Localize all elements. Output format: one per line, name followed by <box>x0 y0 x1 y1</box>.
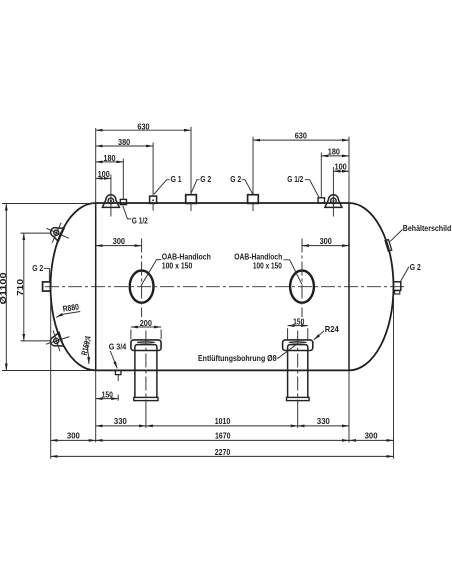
dimension 300 manhole left <box>96 245 142 247</box>
extension line right tangent below <box>348 370 350 442</box>
left leg flange lens <box>137 342 155 343</box>
dimension 630 top-right <box>253 139 349 141</box>
dimension 330 bottom-left <box>96 425 146 427</box>
svg-text:G 1: G 1 <box>171 174 182 184</box>
left tangent weld seam <box>95 203 97 370</box>
dimension 200 left leg <box>131 330 161 340</box>
extension line left apex <box>50 292 52 459</box>
svg-text:630: 630 <box>137 122 149 132</box>
svg-text:1010: 1010 <box>215 416 231 426</box>
dimension 630 top-left <box>96 129 191 131</box>
dimension 150 vent position <box>96 398 119 400</box>
fitting G 1 (square on top line) <box>150 196 157 203</box>
left dished head <box>51 203 96 370</box>
left leg pipe <box>135 345 157 398</box>
dimension 180 top-right <box>321 155 349 157</box>
dimension 100 top-left <box>96 177 111 179</box>
fitting G 2 left head apex <box>43 282 51 291</box>
svg-text:Ø1100: Ø1100 <box>0 272 8 304</box>
svg-text:150: 150 <box>293 317 305 327</box>
svg-text:100: 100 <box>98 169 110 179</box>
manhole left ellipse <box>130 271 154 303</box>
svg-text:R24: R24 <box>325 324 339 334</box>
dimension 180 top-left <box>96 161 124 163</box>
svg-text:1670: 1670 <box>215 430 231 440</box>
svg-text:380: 380 <box>118 137 130 147</box>
extension lines 710 to head lugs <box>21 233 52 341</box>
left leg foot <box>134 397 158 400</box>
label R169,4 <box>79 335 93 356</box>
extension line lug-left centerline <box>110 175 112 217</box>
left leg centerline <box>145 331 147 412</box>
svg-text:100 x 150: 100 x 150 <box>253 261 282 271</box>
dimension 100 top-right <box>333 170 349 172</box>
dimension 710 <box>23 233 25 341</box>
svg-text:300: 300 <box>113 236 125 246</box>
fitting G 2 right head apex <box>393 282 400 291</box>
tank shell bottom line <box>96 369 349 371</box>
dimension 300 manhole right <box>302 245 349 247</box>
lifting lug top-left on shell <box>102 195 119 208</box>
svg-text:200: 200 <box>140 318 152 328</box>
svg-text:100 x 150: 100 x 150 <box>162 261 193 271</box>
right leg pipe <box>288 345 308 398</box>
svg-text:300: 300 <box>67 430 80 440</box>
svg-text:G 1/2: G 1/2 <box>287 174 303 184</box>
extension line right tangent above <box>348 137 350 203</box>
svg-text:G 2: G 2 <box>32 263 43 273</box>
extension line left tangent above <box>95 128 97 203</box>
left leg flange <box>131 340 161 351</box>
fitting G 1/2 left (square on top line) <box>120 199 126 204</box>
dimension 300 bottom-left <box>51 439 96 441</box>
right dished head <box>349 203 394 370</box>
svg-text:Entlüftungsbohrung Ø8: Entlüftungsbohrung Ø8 <box>198 353 277 363</box>
svg-text:300: 300 <box>320 236 332 246</box>
extension line right apex <box>393 294 395 459</box>
fitting G 1/2 right (square on top line) <box>318 198 324 203</box>
extension line G1/2 left <box>122 159 124 200</box>
right leg flange <box>283 340 313 351</box>
svg-text:100: 100 <box>335 162 347 172</box>
head lug upper-left <box>42 218 73 248</box>
extension line G1/2 right <box>320 153 322 198</box>
tank horizontal centerline <box>45 286 404 288</box>
head lug lower-left <box>43 326 73 354</box>
dimension dia 1100 <box>5 204 7 371</box>
svg-text:150: 150 <box>102 389 114 399</box>
svg-text:R169,4: R169,4 <box>79 335 93 356</box>
manhole left centerline <box>141 239 143 318</box>
right leg flange lens <box>289 342 307 343</box>
lifting lug top-right on shell <box>325 195 342 208</box>
svg-text:630: 630 <box>295 131 307 141</box>
right leg foot <box>287 397 310 400</box>
svg-text:G 3/4: G 3/4 <box>109 341 127 351</box>
svg-text:710: 710 <box>15 279 25 296</box>
svg-text:G 2: G 2 <box>230 174 241 184</box>
dimension 2270 bottom <box>51 455 394 457</box>
dimension 300 bottom-right <box>349 439 394 441</box>
svg-text:G 2: G 2 <box>200 174 211 184</box>
svg-text:300: 300 <box>365 430 378 440</box>
right tangent weld seam <box>348 203 350 370</box>
dimension 1010 bottom <box>146 425 298 427</box>
tank shell top line <box>96 202 349 204</box>
svg-text:G 2: G 2 <box>410 262 421 272</box>
svg-text:2270: 2270 <box>215 447 231 457</box>
nameplate Behaelterschild on right head <box>385 240 392 252</box>
fitting G 2 left (square on top line) <box>186 195 197 204</box>
manhole right ellipse <box>290 271 314 303</box>
extension line G2 mid-right <box>252 137 254 211</box>
dimension 330 bottom-right <box>298 425 349 427</box>
fitting G 2 mid-right (square on top line) <box>248 195 259 204</box>
svg-text:330: 330 <box>317 416 330 426</box>
svg-text:180: 180 <box>328 147 340 157</box>
svg-text:330: 330 <box>114 416 127 426</box>
svg-text:180: 180 <box>103 153 115 163</box>
extension line left tangent below <box>95 370 97 442</box>
fitting G 3/4 vent under shell <box>115 370 121 374</box>
dimension 150 right leg <box>288 328 308 339</box>
right leg centerline <box>297 331 299 412</box>
dimension 1670 bottom <box>96 439 349 441</box>
extension line G2 left <box>190 127 192 211</box>
svg-text:G 1/2: G 1/2 <box>132 215 148 225</box>
extension line lug-right centerline <box>332 167 334 217</box>
manhole right centerline <box>301 239 303 318</box>
svg-text:Behälterschild: Behälterschild <box>403 223 452 233</box>
dimension 380 top-left <box>96 145 153 147</box>
extension lines dia 1100 <box>2 204 96 371</box>
label R880 <box>62 301 80 313</box>
extension line G1 <box>152 143 154 211</box>
